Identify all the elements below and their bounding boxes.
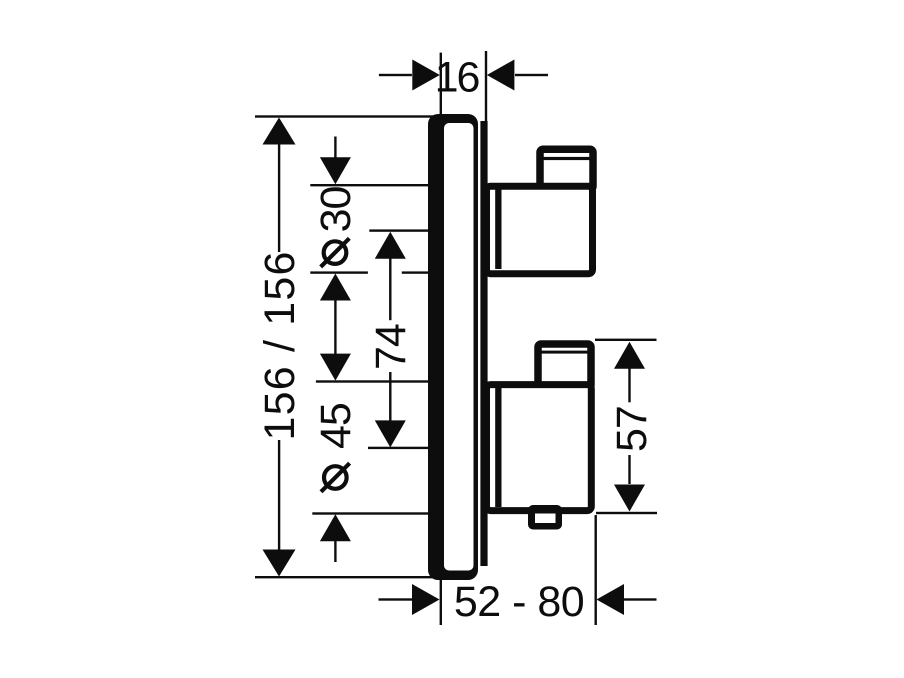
dimension 74 upper shaft: [389, 258, 391, 320]
extension line 156 top: [255, 115, 443, 117]
dimension 74 bottom arrow (down): [375, 420, 406, 447]
dimension diam30 label diameter symbol: [321, 238, 350, 267]
handle 2 body inner left line: [495, 388, 501, 507]
dimension diam30 bottom arrow (up): [320, 274, 351, 301]
extension line for 16 (plate front): [440, 53, 442, 115]
handle 2 knob inner line: [540, 351, 588, 354]
svg-text:16: 16: [435, 54, 480, 102]
extension line diam30 top: [310, 184, 429, 186]
dimension 156/156 upper shaft: [278, 144, 280, 252]
wall / rear plane line: [480, 121, 487, 566]
handle 2 body (thermostat big box): [487, 385, 592, 511]
svg-text:156 / 156: 156 / 156: [256, 250, 304, 440]
svg-text:57: 57: [608, 406, 656, 452]
dimension 57 top arrow (up): [614, 342, 645, 369]
dimension 16 left shaft: [379, 74, 412, 76]
dimension 52-80 left shaft: [379, 598, 413, 600]
extension line diam45 top: [316, 380, 430, 382]
dimension diam45 lower shaft: [334, 541, 336, 562]
handle 1 body inner left line: [495, 190, 501, 270]
dimension 16 left arrow: [412, 60, 440, 91]
dimension 52-80 left arrow: [412, 584, 440, 615]
extension line 52-80 left: [440, 577, 442, 625]
dimension diam45 bottom arrow (up): [320, 514, 351, 541]
dimension 57 lower shaft: [628, 455, 630, 484]
svg-text:30: 30: [312, 186, 360, 232]
extension line upper (wall plane, thin): [485, 51, 487, 123]
handle 1 body (top valve big box): [487, 186, 593, 274]
dimension 52-80 right arrow: [597, 584, 625, 615]
handle 1 knob inner line: [542, 157, 591, 160]
svg-text:52 - 80: 52 - 80: [454, 578, 584, 626]
dimension 16 right shaft: [515, 74, 548, 76]
handle 2 bottom tab: [528, 505, 562, 530]
extension line diam30 bottom (two segments): [310, 271, 368, 273]
dimension diam30 upper shaft: [334, 137, 336, 159]
dimension diam45 label diameter symbol: [321, 463, 350, 492]
dimension diam45 top arrow (down): [320, 354, 351, 381]
extension line 74 top: [369, 229, 429, 231]
dimension diam30 top arrow (down): [320, 157, 351, 184]
svg-text:45: 45: [312, 403, 360, 449]
extension line diam45 bottom: [312, 512, 430, 514]
escutcheon plate (side view): [428, 114, 478, 580]
dimension 16 right arrow: [487, 60, 515, 91]
extension line 52-80 right: [595, 515, 597, 625]
dimension 74 lower shaft: [389, 372, 391, 421]
svg-text:74: 74: [367, 324, 415, 370]
dimension 52-80 right shaft: [624, 598, 657, 600]
extension line 74 bottom: [368, 447, 430, 449]
extension line 57 bottom: [596, 512, 657, 514]
dimension 156/156 lower shaft: [278, 440, 280, 551]
handle 1 knob (top valve small box): [540, 149, 593, 189]
extension line 57 top: [595, 339, 657, 341]
handle 2 knob (thermostat small box): [538, 344, 591, 388]
dimension 74 top arrow (up): [375, 232, 406, 259]
dimension diam30 lower shaft: [334, 300, 336, 356]
dimension 156/156 bottom arrow: [263, 550, 296, 577]
dimension 156/156 top arrow: [263, 118, 296, 145]
dimension 57 bottom arrow (down): [614, 485, 645, 512]
extension line 156 bottom: [255, 576, 438, 578]
dimension 57 upper shaft: [628, 368, 630, 402]
